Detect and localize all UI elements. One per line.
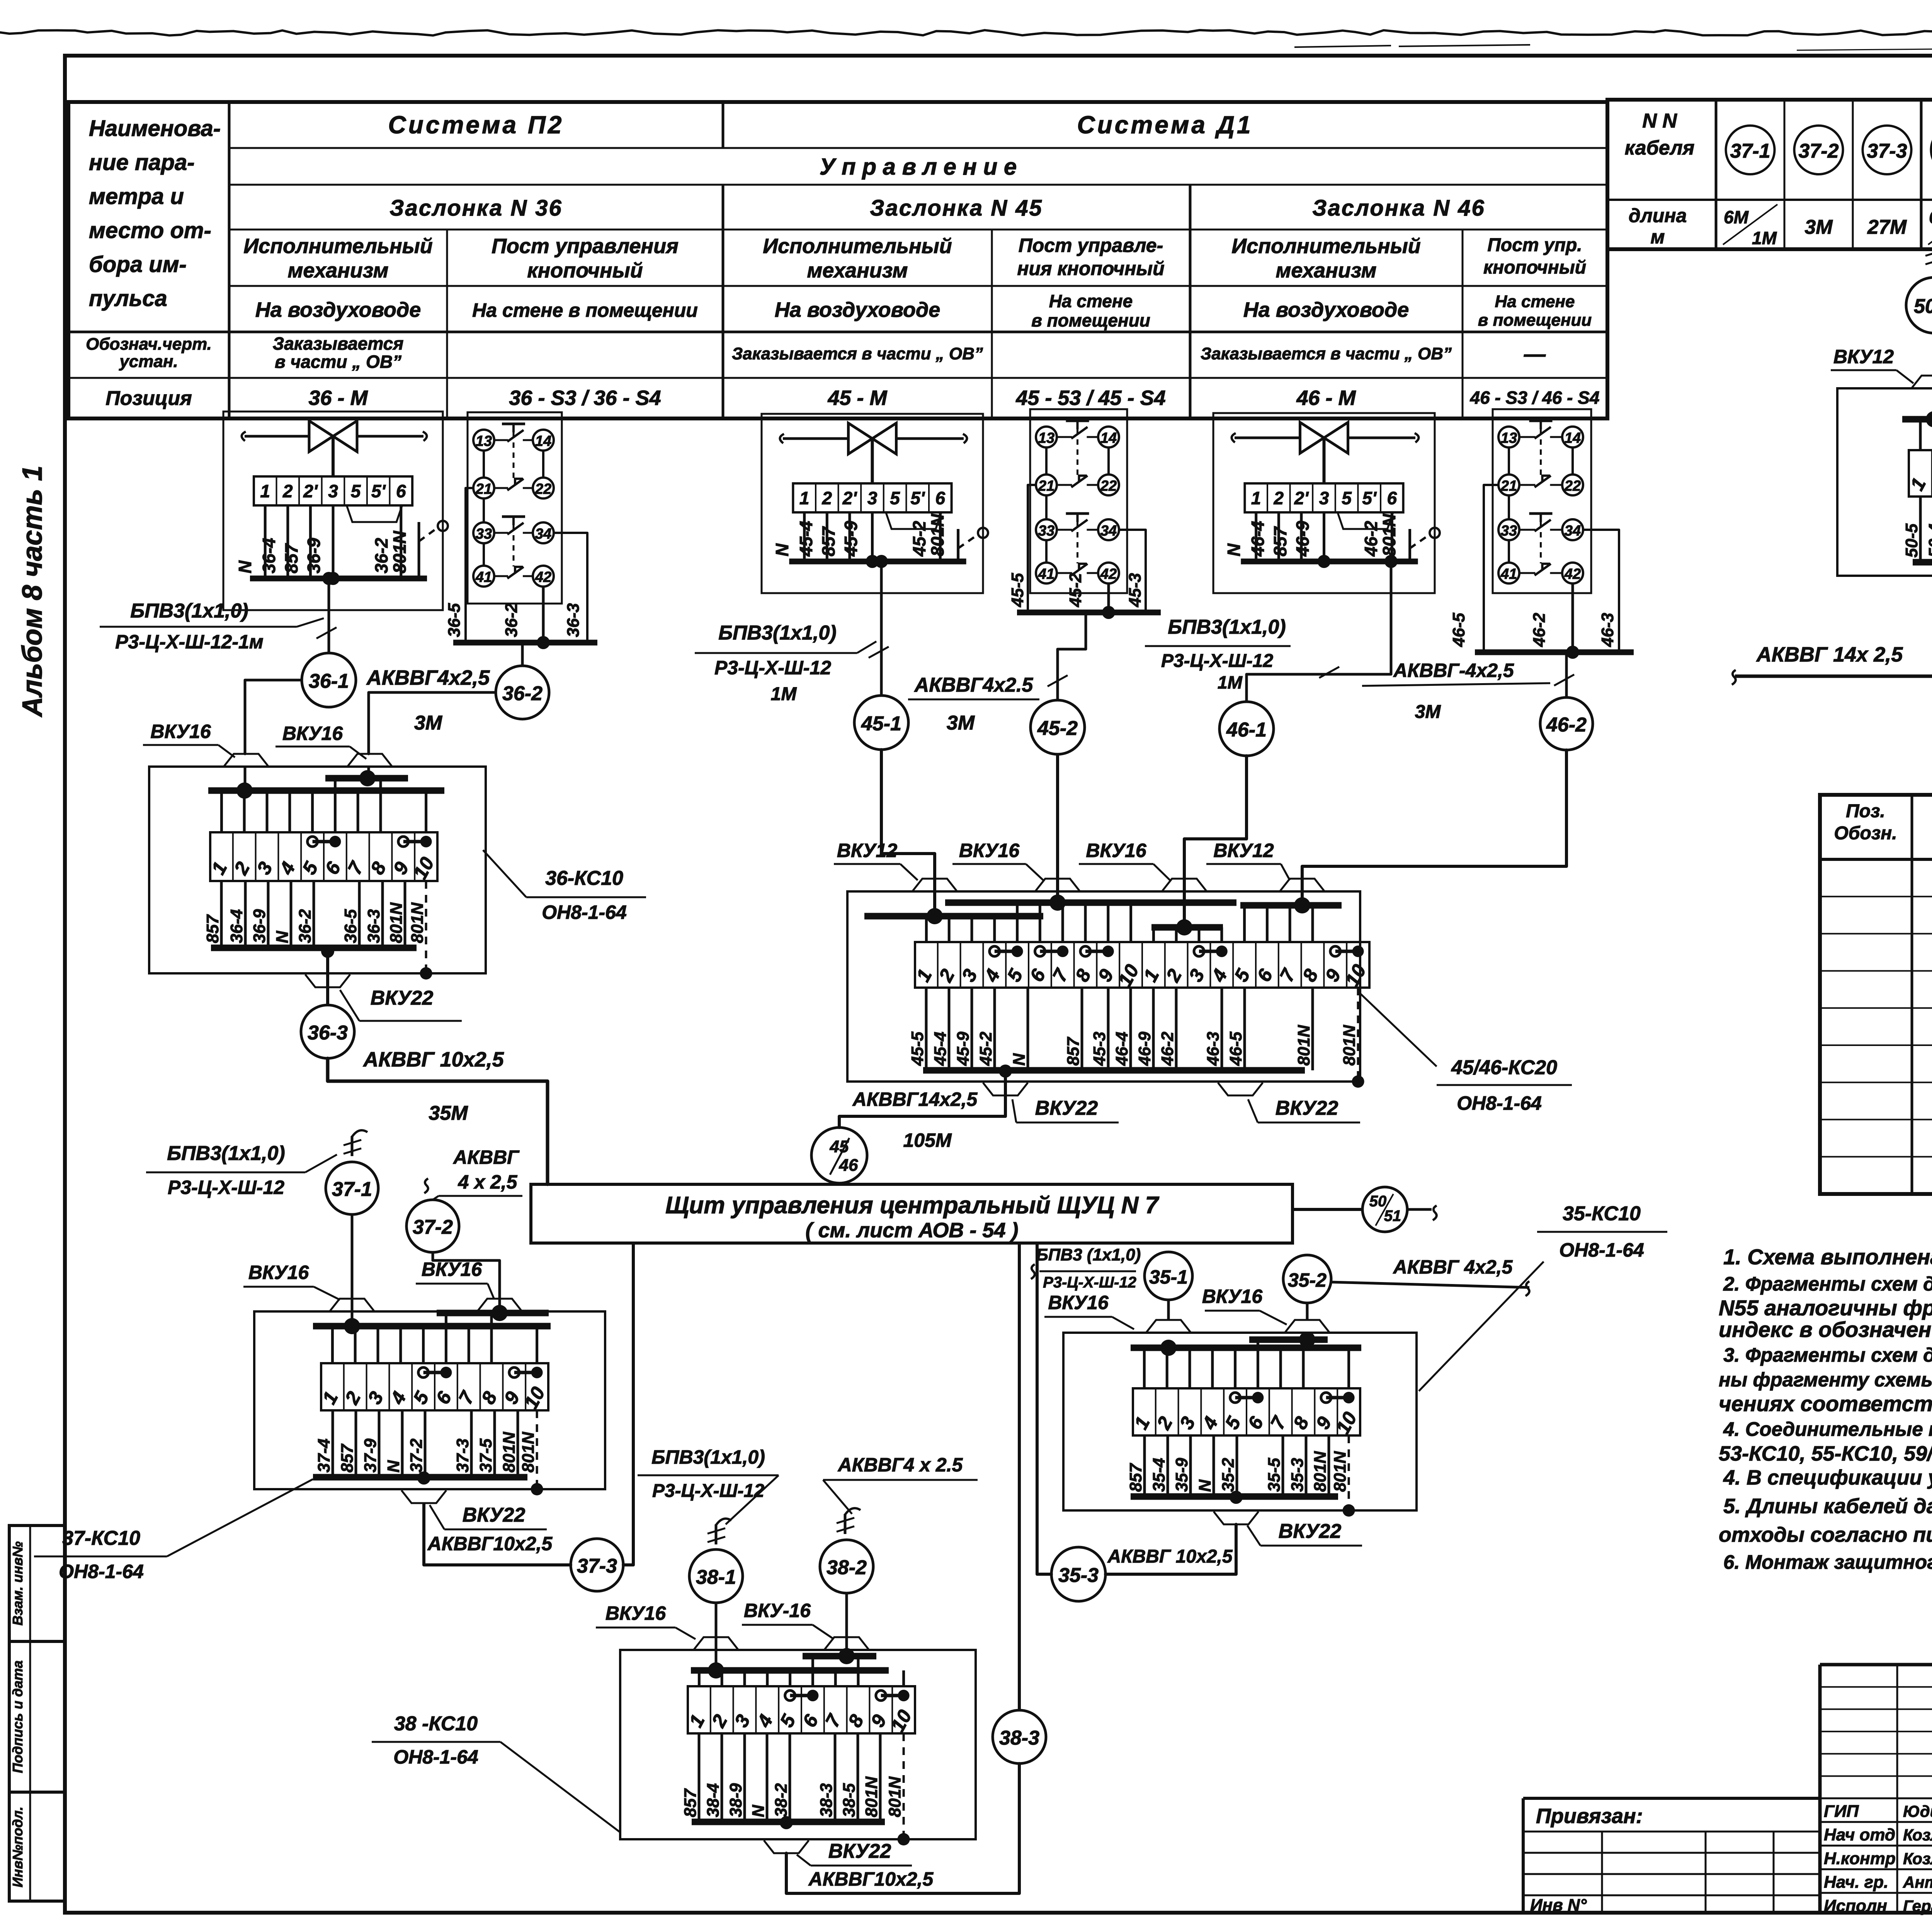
valve stem wire 45 [871, 439, 874, 483]
bottom bus 45/46-KC20 [923, 1067, 1305, 1074]
wire 46 actuator to 46-1 [1247, 561, 1391, 702]
svg-text:22: 22 [535, 481, 551, 497]
svg-text:45-4: 45-4 [796, 521, 816, 557]
svg-text:1: 1 [1251, 488, 1261, 508]
bus in 45/46-KC20 [1151, 924, 1223, 931]
wires bus to strip 45/46-KC20 [1152, 927, 1155, 942]
svg-text:801N: 801N [1331, 1451, 1350, 1492]
svg-text:Заслонка N 36: Заслонка N 36 [389, 196, 563, 221]
svg-text:3. Фрагменты схем для засл: 3. Фрагменты схем для заслонок N 54, 56;… [1723, 1344, 1932, 1366]
svg-text:1М: 1М [1752, 228, 1777, 248]
svg-text:14: 14 [1100, 430, 1117, 446]
svg-text:857: 857 [1270, 526, 1290, 556]
dashed 801N wire 36-KC10 [425, 881, 427, 971]
specification table grid [1820, 795, 1932, 1194]
jumpers 38-KC10 [790, 1694, 813, 1697]
svg-text:2': 2' [842, 488, 858, 508]
svg-text:N: N [273, 930, 292, 943]
wires bus to strip 37-KC10 [536, 1326, 538, 1363]
svg-text:35-3: 35-3 [1288, 1458, 1307, 1492]
svg-text:5': 5' [371, 481, 386, 501]
svg-text:37-2: 37-2 [407, 1438, 426, 1473]
wire 38 box to 38-3 [780, 1816, 793, 1829]
wires bus to strip 35-KC10 [1143, 1348, 1146, 1388]
wires bus to strip 35-KC10 [1257, 1340, 1259, 1388]
svg-text:ОН8-1-64: ОН8-1-64 [393, 1746, 478, 1768]
svg-text:3М: 3М [1804, 216, 1833, 238]
svg-text:36-5: 36-5 [445, 603, 464, 637]
svg-text:33: 33 [1501, 523, 1517, 539]
svg-text:АКВВГ14х2,5: АКВВГ14х2,5 [852, 1088, 978, 1110]
svg-text:Р3-Ц-Х-Ш-12: Р3-Ц-Х-Ш-12 [652, 1481, 764, 1501]
VKU22 under 37-KC10 [401, 1490, 446, 1503]
antenna above 38-1 [716, 1519, 731, 1525]
svg-text:14: 14 [1565, 430, 1581, 446]
wire KC20 to 45/46 circle [999, 1065, 1012, 1078]
svg-text:пульса: пульса [89, 286, 167, 311]
cable circle 37-2 [406, 1200, 459, 1252]
svg-text:35-1: 35-1 [1149, 1266, 1188, 1288]
antenna above 38-2 [845, 1508, 861, 1515]
wire 36-2 to KC10 [369, 692, 496, 754]
svg-text:38-5: 38-5 [840, 1783, 859, 1817]
svg-text:4. В спецификации учтено об: 4. В спецификации учтено общее количеств… [1723, 1466, 1932, 1489]
privyazan block [1523, 1797, 1820, 1800]
svg-text:ВКУ12: ВКУ12 [837, 840, 898, 861]
post contacts 46 row 21-22 [1498, 474, 1519, 495]
svg-text:Юдин: Юдин [1903, 1802, 1932, 1820]
trapezoids on 38-KC10 [694, 1637, 738, 1650]
svg-text:Подпись и дата: Подпись и дата [10, 1660, 26, 1773]
svg-text:45-2: 45-2 [1066, 573, 1085, 607]
actuator bottom bus 36 [250, 576, 427, 582]
svg-text:Наименова-: Наименова- [89, 116, 221, 141]
svg-text:41: 41 [1038, 566, 1054, 582]
svg-text:36-1: 36-1 [309, 670, 349, 692]
svg-text:2: 2 [1274, 488, 1284, 508]
svg-text:ВКУ16: ВКУ16 [1086, 840, 1147, 861]
svg-text:1М: 1М [1218, 672, 1243, 692]
post contacts 46 row 13-14 [1498, 427, 1519, 447]
cable circle 50/51 at ShUC [1362, 1187, 1407, 1232]
bottom bus 37-KC10 [313, 1474, 527, 1481]
svg-text:На воздуховоде: На воздуховоде [775, 298, 940, 321]
svg-text:N55 аналогичны фрагменту схе: N55 аналогичны фрагменту схемы для засло… [1719, 1296, 1932, 1320]
wire 35-3 to ShUC [1037, 1243, 1051, 1574]
valve stem wire 36 [332, 436, 335, 476]
bus in 45/46-KC20 [945, 900, 1236, 906]
svg-text:ВКУ12: ВКУ12 [1833, 346, 1894, 367]
svg-text:N: N [235, 560, 255, 573]
svg-text:45-4: 45-4 [931, 1032, 950, 1066]
torn paper top second mark [1294, 46, 1391, 47]
svg-text:51: 51 [1384, 1207, 1401, 1225]
plug bracket under strip 36 [347, 505, 402, 522]
cable circle 38-3 [993, 1710, 1046, 1764]
svg-text:6: 6 [396, 481, 406, 501]
svg-text:ВКУ16: ВКУ16 [248, 1262, 310, 1283]
svg-text:41: 41 [475, 569, 492, 585]
svg-text:—: — [1524, 342, 1546, 366]
svg-text:кнопочный: кнопочный [1483, 257, 1586, 278]
svg-text:42: 42 [535, 569, 551, 585]
svg-text:Козлов: Козлов [1903, 1849, 1932, 1867]
svg-text:кабеля: кабеля [1625, 137, 1695, 159]
svg-text:3: 3 [867, 488, 878, 508]
svg-text:N: N [1196, 1479, 1214, 1492]
svg-text:801N: 801N [1340, 1025, 1359, 1066]
svg-text:38-2: 38-2 [827, 1556, 867, 1579]
svg-text:857: 857 [818, 526, 838, 556]
valve symbol 36 [309, 421, 333, 452]
svg-text:801N: 801N [500, 1432, 519, 1473]
svg-text:35-КС10: 35-КС10 [1563, 1202, 1641, 1225]
cable circle 46-2 [1540, 697, 1593, 750]
wire 45 post to 45-2 [1058, 612, 1086, 700]
svg-text:длина: длина [1629, 205, 1687, 226]
svg-text:Р3-Ц-Х-Ш-12: Р3-Ц-Х-Ш-12 [1161, 651, 1273, 671]
svg-text:отходы согласно письму ГОС: отходы согласно письму ГОССТРОЯ СССР от … [1719, 1523, 1932, 1546]
svg-text:35-2: 35-2 [1219, 1458, 1238, 1492]
VKU22 under 35-KC10 [1214, 1512, 1259, 1524]
post bottom bus 36 [453, 640, 597, 646]
svg-text:36-2: 36-2 [502, 682, 543, 705]
svg-text:в помещении: в помещении [1478, 311, 1592, 330]
dashed 801N wire 38-KC10 [903, 1733, 905, 1837]
svg-text:ВКУ-16: ВКУ-16 [744, 1600, 811, 1621]
svg-text:На воздуховоде: На воздуховоде [1243, 298, 1409, 321]
svg-text:801N: 801N [1379, 514, 1399, 556]
svg-text:устан.: устан. [119, 352, 178, 371]
cable mark slash 46-2 [1554, 675, 1574, 686]
svg-text:5': 5' [1362, 488, 1377, 508]
wires strip to bottom bus 45/46-KC20 [925, 988, 928, 1070]
bus in 38-KC10 [803, 1653, 876, 1660]
svg-text:14: 14 [535, 433, 551, 449]
svg-text:ВКУ16: ВКУ16 [422, 1259, 483, 1280]
bus in 36-KC10 [325, 775, 408, 782]
junction box 36-KC10 [149, 767, 486, 973]
cable 36-3 down to ShUC [328, 1058, 548, 1184]
cable circle 37-3 [571, 1539, 623, 1591]
svg-text:45 - 53 / 45 - S4: 45 - 53 / 45 - S4 [1015, 386, 1165, 410]
post inner wires 36 [483, 451, 485, 478]
cable circle 36-1 [302, 653, 356, 707]
svg-text:N: N [1224, 543, 1244, 556]
svg-text:37-1: 37-1 [332, 1178, 372, 1201]
svg-text:801N: 801N [862, 1776, 881, 1817]
svg-text:37-3: 37-3 [577, 1555, 617, 1577]
cable circle 37-2 [1794, 126, 1843, 174]
svg-text:ОН8-1-64: ОН8-1-64 [1559, 1239, 1644, 1261]
svg-text:Щит управления центральный: Щит управления центральный ЩУЦ N 7 [665, 1192, 1159, 1219]
svg-text:БПВ3 (1х1,0): БПВ3 (1х1,0) [1036, 1245, 1141, 1264]
terminal strip 37-KC10 [321, 1363, 548, 1410]
svg-text:801N: 801N [927, 514, 947, 556]
svg-text:На стене: На стене [1495, 292, 1575, 311]
svg-text:Герасимова: Герасимова [1903, 1897, 1932, 1915]
svg-text:37-4: 37-4 [315, 1439, 333, 1473]
cable length 6М|1М col 4 [1928, 204, 1932, 245]
svg-text:в части „ ОВ”: в части „ ОВ” [275, 352, 401, 372]
cable mark slash 45-2 [1048, 675, 1068, 687]
wire 50/51 squiggle end [1407, 1208, 1432, 1211]
svg-text:АКВВГ10х2,5: АКВВГ10х2,5 [808, 1868, 934, 1890]
post contacts 45 row 13-14 [1036, 427, 1057, 447]
svg-text:Н.контр: Н.контр [1824, 1849, 1896, 1868]
svg-text:45-3: 45-3 [1090, 1032, 1109, 1066]
svg-text:Пост упр.: Пост упр. [1487, 235, 1582, 255]
svg-text:5: 5 [351, 481, 361, 501]
svg-text:бора им-: бора им- [89, 252, 187, 277]
svg-text:2': 2' [303, 481, 318, 501]
svg-text:ОН8-1-64: ОН8-1-64 [1457, 1092, 1542, 1114]
junction box 45/46-KC20 [847, 891, 1360, 1082]
actuator wires to bus 36 [264, 505, 267, 578]
svg-text:ОН8-1-64: ОН8-1-64 [542, 901, 627, 923]
svg-text:38-3: 38-3 [999, 1727, 1039, 1749]
svg-text:38-2: 38-2 [772, 1783, 791, 1817]
valve symbol 46 [1300, 422, 1324, 453]
cable circle 37-1 [326, 1162, 378, 1214]
svg-text:2. Фрагменты схем для засл: 2. Фрагменты схем для заслонок N 35, 37,… [1723, 1273, 1932, 1295]
svg-text:ния кнопочный: ния кнопочный [1017, 258, 1164, 279]
svg-text:5': 5' [910, 488, 925, 508]
svg-text:На воздуховоде: На воздуховоде [255, 298, 421, 321]
svg-text:45-2: 45-2 [1037, 717, 1078, 740]
bus in 38-KC10 [691, 1667, 889, 1674]
title block staff grid [1820, 1686, 1932, 1688]
svg-text:36-КС10: 36-КС10 [545, 867, 623, 889]
button post box 36 [468, 412, 562, 604]
svg-text:33: 33 [476, 526, 492, 542]
svg-text:6М: 6М [1724, 207, 1749, 227]
svg-text:36 - М: 36 - М [308, 386, 368, 410]
cable circle 37-3 [1863, 126, 1912, 174]
svg-text:6М: 6М [1929, 207, 1932, 227]
neutral 801N pickup circle 45 [978, 528, 988, 538]
valve stem wire 46 [1323, 438, 1326, 483]
svg-text:50-2: 50-2 [1914, 295, 1932, 318]
wires bus to strip 36-KC10 [334, 778, 337, 832]
svg-text:36-4: 36-4 [259, 538, 279, 573]
cable circle 35-2 [1283, 1255, 1331, 1303]
wires strip to bottom bus 35-KC10 [1143, 1435, 1146, 1497]
svg-text:45-9: 45-9 [841, 521, 861, 557]
svg-text:46-3: 46-3 [1204, 1032, 1223, 1066]
wires bus to strip 45/46-KC20 [925, 916, 928, 942]
actuator box 45-M [762, 414, 983, 593]
air duct line with valve 45 [783, 437, 849, 440]
svg-text:46-4: 46-4 [1248, 521, 1268, 557]
svg-text:АКВВГ 14х 2,5: АКВВГ 14х 2,5 [1756, 643, 1903, 666]
jumpers 35-KC10 [1235, 1396, 1258, 1400]
svg-text:ВКУ22: ВКУ22 [1035, 1097, 1098, 1119]
svg-text:34: 34 [1100, 523, 1117, 539]
VKU22 under 38-KC10 [764, 1840, 809, 1853]
svg-text:46 - М: 46 - М [1296, 386, 1356, 410]
svg-text:3М: 3М [1415, 702, 1441, 722]
svg-text:36-3: 36-3 [364, 909, 383, 943]
svg-text:42: 42 [1564, 566, 1581, 582]
svg-text:механизм: механизм [807, 259, 908, 282]
wires bus to strip 38-KC10 [811, 1656, 814, 1686]
KC20 50/51 entry trapezoids [1912, 376, 1932, 388]
neutral 801N pickup circle 46 [1430, 528, 1440, 538]
svg-text:36-3: 36-3 [308, 1022, 348, 1044]
svg-text:857: 857 [1064, 1036, 1083, 1066]
svg-text:4. Соединительные коробки 4: 4. Соединительные коробки 43-КС10, 44-КС… [1723, 1418, 1932, 1440]
VKU22 connector under 36-KC10 [305, 975, 350, 987]
bottom bus 36-KC10 [211, 945, 417, 951]
bus in 37-KC10 [437, 1310, 549, 1316]
svg-text:ГИП: ГИП [1824, 1802, 1859, 1821]
svg-text:38 -КС10: 38 -КС10 [394, 1713, 478, 1735]
post drops to bus 36 [466, 488, 473, 643]
svg-text:801N: 801N [387, 902, 406, 943]
actuator bottom bus 46 [1241, 559, 1418, 565]
svg-text:Обознач.черт.: Обознач.черт. [86, 335, 212, 354]
svg-text:АКВВГ 10х2,5: АКВВГ 10х2,5 [1107, 1546, 1233, 1567]
svg-text:ВКУ22: ВКУ22 [1279, 1520, 1342, 1543]
wires bus to strip 38-KC10 [902, 1670, 905, 1686]
terminal strip 45 actuator [793, 483, 951, 512]
wire 46-2 to KC20 [1302, 750, 1566, 905]
wires bus to strip 36-KC10 [425, 791, 427, 832]
terminal strip 38-KC10 [688, 1686, 915, 1733]
svg-text:6. Монтаж защитного занулен: 6. Монтаж защитного зануления выполнить … [1723, 1551, 1932, 1573]
svg-text:42: 42 [1100, 566, 1117, 582]
air duct line with valve 36 [245, 435, 309, 438]
cable circle 38-1 [689, 1549, 743, 1603]
svg-text:Р3-Ц-Х-Ш-12: Р3-Ц-Х-Ш-12 [168, 1177, 284, 1198]
svg-text:На стене: На стене [1049, 291, 1133, 311]
post contacts 45 row 41-42 [1036, 563, 1057, 583]
terminal strip 50/51-KC20 [1909, 450, 1932, 497]
air duct line with valve 46 [1235, 437, 1300, 439]
svg-text:46: 46 [839, 1156, 858, 1175]
cable mark slash 36-1 [316, 628, 337, 639]
svg-text:38-3: 38-3 [817, 1783, 836, 1817]
bus in 36-KC10 [208, 787, 444, 794]
wire 37-3 to ShUC [623, 1243, 633, 1565]
svg-text:БПВ3(1х1,0): БПВ3(1х1,0) [718, 622, 836, 644]
bus in 35-KC10 [1131, 1345, 1361, 1351]
svg-text:45-5: 45-5 [908, 1031, 927, 1066]
svg-text:У п р а в л е н и е: У п р а в л е н и е [820, 154, 1017, 180]
bottom bus 50/51-KC20 [1913, 559, 1932, 566]
svg-text:ВКУ22: ВКУ22 [1276, 1097, 1338, 1119]
jumpers 36-KC10 [313, 840, 335, 844]
svg-text:13: 13 [1501, 430, 1517, 446]
cable mark slash 46-1 [1319, 667, 1339, 678]
svg-text:АКВВГ4 х 2.5: АКВВГ4 х 2.5 [837, 1454, 963, 1476]
svg-text:ВКУ12: ВКУ12 [1213, 840, 1274, 861]
wires bus to strip 45/46-KC20 [1243, 905, 1246, 942]
svg-text:N: N [749, 1804, 768, 1817]
svg-text:АКВВГ: АКВВГ [452, 1146, 520, 1168]
svg-text:Инв N°: Инв N° [1530, 1896, 1587, 1915]
wire 37-1 down [351, 1214, 354, 1326]
svg-text:2: 2 [822, 488, 832, 508]
svg-text:36-2: 36-2 [371, 538, 391, 573]
post inner wires 45 [1045, 447, 1048, 474]
cable circle 50-2 [1906, 277, 1932, 333]
valve symbol 45 [849, 423, 872, 454]
actuator wires to bus 45 [803, 512, 806, 561]
svg-text:36-9: 36-9 [304, 538, 324, 573]
svg-text:36-9: 36-9 [250, 909, 269, 943]
post bottom bus 46 [1475, 650, 1634, 655]
wire 37 box to 37-3 [417, 1471, 430, 1485]
svg-text:м: м [1651, 226, 1665, 248]
svg-text:ВКУ16: ВКУ16 [605, 1602, 667, 1624]
svg-text:ОН8-1-64: ОН8-1-64 [59, 1561, 144, 1582]
cable length 6М|1М col 1 [1723, 204, 1777, 245]
svg-text:ВКУ16: ВКУ16 [1202, 1286, 1263, 1307]
bottom bus 38-KC10 [692, 1819, 885, 1825]
bus in 50/51-KC20 [1902, 416, 1932, 423]
actuator wires to bus 46 [1255, 512, 1257, 561]
svg-text:Привязан:: Привязан: [1536, 1804, 1643, 1828]
svg-text:Заказывается: Заказывается [273, 333, 404, 354]
trapezoids on 37-KC10 [330, 1299, 374, 1311]
wire 36-1 down to KC10 [245, 680, 302, 754]
KC20 45/46 entry trapezoids [912, 879, 957, 891]
svg-text:N: N [772, 543, 792, 556]
svg-text:37-3: 37-3 [1867, 140, 1907, 162]
svg-text:6: 6 [935, 488, 946, 508]
svg-text:35М: 35М [429, 1102, 468, 1124]
svg-text:46-5: 46-5 [1226, 1031, 1245, 1066]
svg-text:метра и: метра и [89, 184, 184, 209]
terminal strip 36-KC10 [210, 832, 437, 881]
junction box 37-KC10 [254, 1311, 605, 1489]
wire 36 actuator to cable mark [328, 578, 330, 653]
svg-text:46-4: 46-4 [1112, 1032, 1131, 1066]
junction on bus 46 [1318, 555, 1331, 568]
svg-text:место от-: место от- [89, 218, 211, 243]
svg-text:46-2: 46-2 [1158, 1031, 1177, 1066]
svg-text:45-5: 45-5 [1008, 573, 1027, 607]
svg-text:Нач. гр.: Нач. гр. [1824, 1873, 1888, 1892]
left column boxes Vzam/Podpis/Inv [9, 1526, 65, 1641]
svg-text:857: 857 [281, 543, 301, 573]
wires bus to strip 50/51-KC20 [1919, 420, 1922, 450]
actuator box 46-M [1213, 413, 1435, 593]
svg-text:46-1: 46-1 [1226, 719, 1267, 741]
svg-text:801N: 801N [886, 1776, 905, 1817]
wires 35 circles down [1167, 1300, 1170, 1320]
svg-text:35-3: 35-3 [1058, 1564, 1099, 1587]
svg-text:801N: 801N [389, 531, 410, 573]
wires strip to bottom bus 38-KC10 [698, 1733, 701, 1822]
dashed 801N wire 45/46-KC20 [1357, 988, 1359, 1079]
svg-text:35-2: 35-2 [1288, 1269, 1327, 1291]
svg-text:1: 1 [260, 481, 270, 501]
svg-text:857: 857 [338, 1443, 357, 1473]
svg-text:1: 1 [799, 488, 810, 508]
svg-text:37-9: 37-9 [361, 1438, 380, 1473]
svg-text:34: 34 [535, 526, 551, 542]
post contacts 36 row 41-42 [473, 566, 494, 587]
post contacts 45 row 21-22 [1036, 474, 1057, 495]
bus in 45/46-KC20 [864, 913, 1043, 920]
svg-text:БПВ3(1х1,0): БПВ3(1х1,0) [651, 1446, 765, 1468]
post bottom bus 45 [1017, 610, 1161, 616]
svg-text:в помещении: в помещении [1031, 310, 1150, 330]
post contacts 45 row 33-34 [1036, 519, 1057, 540]
